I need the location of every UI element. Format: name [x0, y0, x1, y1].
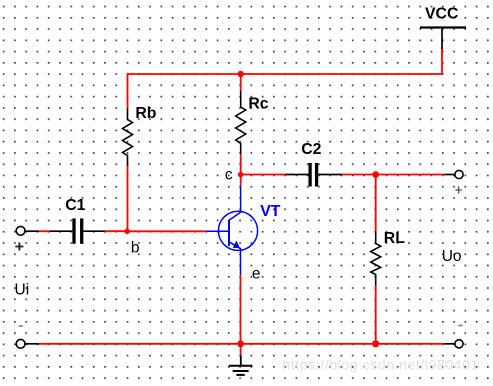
wire: Rc bottom lead to node c (red)	[240, 154, 242, 175]
svg-text:Rb: Rb	[135, 105, 156, 122]
wire: emitter to bottom rail (red)	[240, 275, 242, 344]
svg-text:C1: C1	[65, 197, 85, 214]
junction: node b	[124, 229, 130, 235]
junction: RL bottom	[372, 340, 379, 347]
wire: bottom rail (red)	[39, 343, 444, 345]
svg-text:Rc: Rc	[248, 95, 268, 112]
wire: Rb bottom lead to node b (red)	[127, 166, 129, 231]
wire: Rb top lead (red)	[127, 73, 129, 108]
resistor Rc	[236, 91, 246, 154]
wire: node b to base (red)	[127, 230, 206, 232]
label - (output)	[458, 325, 462, 327]
label + (input)	[15, 242, 23, 250]
svg-text:c: c	[225, 167, 233, 184]
svg-text:Ui: Ui	[15, 281, 30, 298]
capacitor C1	[50, 218, 105, 243]
wire: node c to collector (red part)	[240, 175, 242, 186]
svg-text:VCC: VCC	[425, 6, 458, 23]
wire: RL bottom lead (red)	[375, 286, 377, 344]
junction: top rail / Rc	[238, 71, 244, 77]
resistor RL	[371, 232, 381, 287]
wire: input to C1 (red)	[39, 230, 50, 232]
svg-text:C2: C2	[301, 141, 321, 158]
power symbol VCC	[420, 28, 466, 50]
label - (input)	[19, 325, 23, 327]
junction: node c	[238, 172, 244, 178]
wire: top supply rail	[128, 73, 443, 75]
svg-text:VT: VT	[260, 203, 281, 220]
wire: node c to C2 (red)	[241, 174, 286, 176]
terminal: output +	[445, 170, 464, 178]
terminal: output -	[444, 340, 463, 348]
wire: C1 to node b (red)	[105, 230, 127, 232]
terminal: input +	[16, 226, 25, 235]
label + (output)	[455, 186, 461, 193]
wire: VCC drop (red part)	[441, 49, 443, 74]
junction: emitter/ground on bottom rail	[237, 340, 244, 347]
svg-text:RL: RL	[384, 230, 405, 247]
svg-text:b: b	[131, 240, 140, 257]
terminal: input -	[16, 339, 39, 348]
wire: ground drop (red)	[240, 344, 242, 356]
junction: RL top	[372, 171, 379, 178]
transistor VT	[206, 185, 258, 275]
svg-text:https://blog.csdn.net/l980401: https://blog.csdn.net/l980401	[283, 357, 479, 373]
resistor Rb	[123, 109, 133, 167]
wire: Rc top lead (red)	[240, 73, 242, 91]
svg-text:Uo: Uo	[442, 248, 462, 265]
wire: C2 to output terminal (red)	[342, 174, 445, 176]
svg-text:e: e	[252, 265, 261, 282]
wire: input terminal lead (black)	[25, 230, 39, 232]
capacitor C2	[286, 163, 342, 187]
ground	[229, 355, 253, 375]
wire: RL top lead (red)	[375, 175, 377, 232]
